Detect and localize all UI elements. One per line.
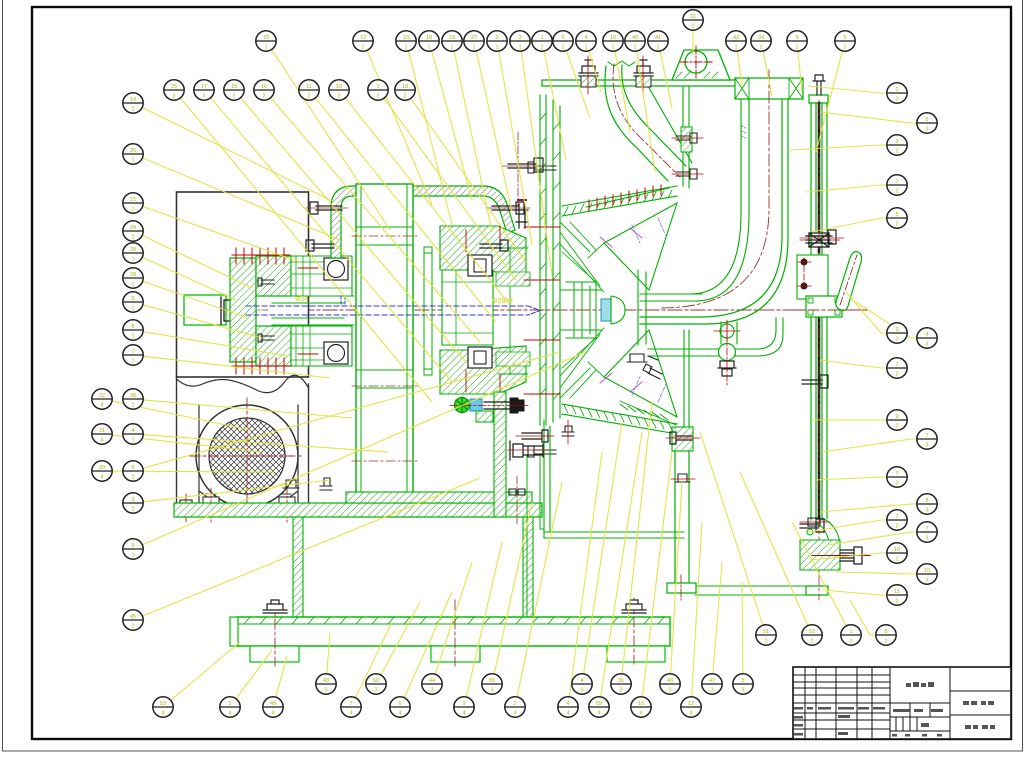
balloon callout 14 xyxy=(123,93,143,113)
svg-text:3: 3 xyxy=(895,139,898,145)
leader line to part 30 xyxy=(144,400,353,418)
svg-text:27: 27 xyxy=(471,35,477,41)
svg-text:55: 55 xyxy=(489,678,495,684)
leader line to part 42 xyxy=(737,51,742,86)
leader line to part 27 xyxy=(476,51,512,212)
svg-text:2: 2 xyxy=(895,188,898,194)
svg-text:3: 3 xyxy=(925,341,928,347)
svg-text:52: 52 xyxy=(809,629,815,635)
svg-text:2: 2 xyxy=(376,93,379,99)
svg-text:2: 2 xyxy=(202,93,205,99)
pump bearing lower xyxy=(468,347,492,368)
casing lower wall xyxy=(544,420,550,532)
leader line to part 2 xyxy=(499,51,532,245)
balloon callout 31 xyxy=(611,674,631,694)
baseplate foot right xyxy=(607,646,665,662)
svg-text:1: 1 xyxy=(131,474,134,480)
leader line to part 49 xyxy=(276,656,287,697)
leader line to part 25 xyxy=(181,98,432,402)
leader line to part 7 xyxy=(822,439,917,452)
balloon callout 7 xyxy=(887,467,907,487)
svg-text:9: 9 xyxy=(131,296,134,302)
bolt cluster A xyxy=(516,430,554,442)
leader line to part 9 xyxy=(143,305,262,338)
balloon callout 23 xyxy=(442,31,462,51)
leader line to part 4 xyxy=(584,422,622,674)
svg-text:53: 53 xyxy=(160,701,166,707)
svg-text:2: 2 xyxy=(895,96,898,102)
leader line to part 7 xyxy=(814,477,887,480)
balloon callout 9 xyxy=(887,410,907,430)
shaft blue cone end xyxy=(528,306,540,315)
svg-text:30: 30 xyxy=(130,393,136,399)
baseplate xyxy=(237,617,670,646)
balloon callout 4 xyxy=(576,31,596,51)
svg-text:5: 5 xyxy=(228,701,231,707)
blue slant marks xyxy=(632,218,666,402)
pump support foot xyxy=(667,583,696,593)
leader line to part 4 xyxy=(856,302,917,338)
baseplate foot left xyxy=(250,646,299,662)
svg-text:2: 2 xyxy=(895,221,898,227)
leader line to part 15 xyxy=(272,50,390,230)
bearing bracket arch xyxy=(331,186,515,258)
wall bolt lower xyxy=(672,169,703,179)
svg-text:49: 49 xyxy=(270,701,276,707)
svg-text:7: 7 xyxy=(349,701,352,707)
svg-text:1: 1 xyxy=(404,44,407,50)
left grid columns xyxy=(805,667,872,739)
balloon callout 44 xyxy=(422,674,442,694)
title text right mid smudge xyxy=(963,701,994,705)
svg-text:1: 1 xyxy=(361,44,364,50)
leader line to part 20 xyxy=(143,257,236,300)
svg-text:7: 7 xyxy=(895,179,898,185)
svg-text:1: 1 xyxy=(131,206,134,212)
balloon callout 8 xyxy=(876,625,896,645)
svg-text:1: 1 xyxy=(849,629,852,635)
svg-text:43: 43 xyxy=(323,678,329,684)
svg-text:2: 2 xyxy=(884,638,887,644)
valve bottom elbow xyxy=(816,518,840,542)
svg-text:2: 2 xyxy=(895,148,898,154)
L-bracket inner wall xyxy=(527,455,544,617)
svg-text:2: 2 xyxy=(262,93,265,99)
balloon callout 18 xyxy=(419,31,439,51)
baseplate left cap xyxy=(230,617,238,646)
svg-text:1: 1 xyxy=(450,44,453,50)
pump support pad xyxy=(672,427,693,451)
support leg left xyxy=(293,517,303,617)
bracket pivot bolts xyxy=(801,259,808,266)
balloon callout 30 xyxy=(123,389,143,409)
leader line to part 16 xyxy=(271,98,480,342)
bolt frame top right xyxy=(502,158,548,172)
svg-text:45: 45 xyxy=(130,614,136,620)
svg-text:5: 5 xyxy=(895,212,898,218)
valve guide columns xyxy=(806,95,828,595)
balloon callout 29 xyxy=(92,461,112,481)
bolt mid right xyxy=(480,240,508,251)
motor pedestal xyxy=(186,491,310,508)
svg-text:9: 9 xyxy=(131,543,134,549)
balloon callout 45 xyxy=(123,610,143,630)
leader line to part 24 xyxy=(143,236,253,289)
balloon callout 2 xyxy=(887,83,907,103)
balloon callout 15 xyxy=(224,80,244,100)
leader line to part 10 xyxy=(836,572,917,574)
svg-text:7: 7 xyxy=(895,362,898,368)
balloon callout 53 xyxy=(153,697,173,717)
svg-text:42: 42 xyxy=(733,35,739,41)
leader line to part 3 xyxy=(521,51,552,275)
leader line to part 43 xyxy=(327,632,330,674)
balloon callout 11 xyxy=(887,585,907,605)
main shaft axis centerline xyxy=(185,309,868,311)
discharge elbow outer wall xyxy=(640,99,788,324)
leader line to part 1 xyxy=(792,522,846,626)
balloon callout 24 xyxy=(123,221,143,241)
shroud band upper xyxy=(562,186,677,216)
support base rail xyxy=(695,586,810,595)
balloon callout 3 xyxy=(887,135,907,155)
svg-text:1: 1 xyxy=(584,44,587,50)
coupling clamp bolt xyxy=(221,297,256,324)
balloon callout 15 xyxy=(256,31,276,51)
svg-text:21: 21 xyxy=(130,197,136,203)
svg-text:4: 4 xyxy=(925,332,928,338)
svg-text:1: 1 xyxy=(656,44,659,50)
baseplate bolt left xyxy=(263,600,287,613)
suction chamber right wall xyxy=(683,86,689,188)
bolt arch left xyxy=(306,202,348,214)
svg-text:3: 3 xyxy=(430,687,433,693)
leader line to part 10 xyxy=(810,553,887,560)
svg-text:8: 8 xyxy=(884,629,887,635)
svg-text:1: 1 xyxy=(376,84,379,90)
svg-text:4: 4 xyxy=(131,428,134,434)
svg-text:1: 1 xyxy=(131,234,134,240)
balloon callout 50 xyxy=(366,674,386,694)
svg-text:1: 1 xyxy=(131,506,134,512)
svg-text:1: 1 xyxy=(795,44,798,50)
impeller inlet cone lines xyxy=(560,222,604,398)
svg-text:2: 2 xyxy=(895,423,898,429)
pump support upper pair xyxy=(684,330,689,427)
svg-text:3: 3 xyxy=(518,35,521,41)
leader line to part 53 xyxy=(171,642,240,700)
leader line to part 6 xyxy=(567,51,591,118)
leader line to part 28 xyxy=(143,281,248,318)
pump support pad bolt xyxy=(666,432,700,444)
leader line to part 59 xyxy=(601,432,642,697)
balloon callout 5 xyxy=(733,674,753,694)
svg-text:2: 2 xyxy=(337,93,340,99)
diffuser upper vane xyxy=(604,203,677,290)
leader line to part 14 xyxy=(142,108,330,200)
balloon callout 7 xyxy=(887,358,907,378)
balloon callout 10 xyxy=(603,31,623,51)
title block vertical main dividers xyxy=(890,667,950,739)
motor frame side walls xyxy=(199,405,298,508)
svg-text:11: 11 xyxy=(894,589,900,595)
bolt mid left xyxy=(306,240,334,251)
pump support column xyxy=(675,451,689,583)
title block outline xyxy=(793,667,1011,739)
svg-text:5: 5 xyxy=(131,465,134,471)
balloon callout 4 xyxy=(572,674,592,694)
balloon callout 26 xyxy=(123,144,143,164)
valve body block xyxy=(806,296,842,317)
svg-text:19: 19 xyxy=(336,84,342,90)
svg-text:3: 3 xyxy=(925,126,928,132)
shaft sleeve block xyxy=(442,270,493,345)
motor end bell circle xyxy=(196,405,298,507)
svg-text:26: 26 xyxy=(130,148,136,154)
balloon callout 52 xyxy=(802,625,822,645)
leader line to part 3 xyxy=(846,292,887,333)
impeller nut cyan xyxy=(601,299,611,321)
shaft blue dashed xyxy=(246,306,528,315)
balloon callout 5 xyxy=(835,31,855,51)
balloon callout 1 xyxy=(841,625,861,645)
svg-text:16: 16 xyxy=(261,84,267,90)
leader line to part 6 xyxy=(404,592,452,697)
svg-text:50: 50 xyxy=(373,678,379,684)
baseplate foot mid xyxy=(431,646,480,662)
leader line to part 23 xyxy=(454,51,492,232)
svg-text:4: 4 xyxy=(462,710,465,716)
svg-text:2: 2 xyxy=(849,638,852,644)
balloon callout 5 xyxy=(220,697,240,717)
svg-text:15: 15 xyxy=(263,35,269,41)
svg-text:2: 2 xyxy=(307,93,310,99)
svg-text:8: 8 xyxy=(131,324,134,330)
svg-text:4: 4 xyxy=(639,710,642,716)
balloon callout 20 xyxy=(123,243,143,263)
balloon callout 51 xyxy=(756,625,776,645)
balloon callout 10 xyxy=(917,564,937,584)
svg-text:12: 12 xyxy=(360,35,366,41)
leader line to part 12 xyxy=(692,522,702,697)
svg-text:1: 1 xyxy=(131,402,134,408)
svg-text:3: 3 xyxy=(619,687,622,693)
leader line to part 46 xyxy=(671,482,682,674)
svg-text:59: 59 xyxy=(596,701,602,707)
balloon callout 17 xyxy=(194,80,214,100)
balloon callout 27 xyxy=(464,31,484,51)
balloon callout 4 xyxy=(558,697,578,717)
leader line to part 3 xyxy=(790,145,887,150)
svg-text:3: 3 xyxy=(925,507,928,513)
nut casing lower mid xyxy=(627,354,658,362)
balloon callout 4 xyxy=(917,328,937,348)
svg-text:3: 3 xyxy=(925,577,928,583)
bolt frame low xyxy=(320,478,332,490)
leader line to part 8 xyxy=(143,332,288,356)
svg-text:3: 3 xyxy=(490,687,493,693)
motor shaft stub xyxy=(184,295,226,325)
lifting lug xyxy=(672,50,730,80)
balloon callout 42 xyxy=(726,31,746,51)
impeller hub steps xyxy=(560,282,602,338)
bolt valve 520 xyxy=(800,519,824,532)
balloon callout 12 xyxy=(681,697,701,717)
svg-text:6: 6 xyxy=(398,701,401,707)
svg-text:2: 2 xyxy=(403,93,406,99)
impeller screws row xyxy=(586,188,669,207)
leader line to part 5 xyxy=(236,650,272,699)
leader line to part 4 xyxy=(569,452,602,697)
drain nuts xyxy=(718,361,736,376)
rear cover hatched band xyxy=(540,95,560,425)
balloon callout 43 xyxy=(316,674,336,694)
svg-text:4: 4 xyxy=(228,710,231,716)
svg-text:4: 4 xyxy=(584,35,587,41)
leader line to part 9 xyxy=(466,542,502,697)
flange bolt right xyxy=(634,56,653,94)
leader line to part 1 xyxy=(384,99,516,281)
svg-text:2: 2 xyxy=(513,701,516,707)
shaft nose cone xyxy=(611,296,625,324)
bearing housing lower xyxy=(291,326,352,366)
svg-text:44: 44 xyxy=(429,678,435,684)
svg-text:7: 7 xyxy=(925,433,928,439)
elbow centerline xyxy=(660,70,769,308)
plate left bolt xyxy=(178,494,194,522)
leader line to part 18 xyxy=(432,51,472,200)
svg-text:Φ24: Φ24 xyxy=(295,296,308,303)
bolt cluster B xyxy=(508,441,549,460)
balloon callout 7 xyxy=(887,510,907,530)
svg-text:1: 1 xyxy=(540,44,543,50)
leader line to part 29 xyxy=(113,470,275,473)
leader line to part 31 xyxy=(692,31,694,56)
svg-text:14: 14 xyxy=(130,97,136,103)
diffuser lower vane xyxy=(604,330,677,417)
svg-text:1: 1 xyxy=(131,106,134,112)
drain pipe xyxy=(648,318,783,356)
balloon callout 7 xyxy=(123,345,143,365)
svg-text:47: 47 xyxy=(709,678,715,684)
leader line to part 5 xyxy=(812,218,887,232)
leader line to part 7 xyxy=(806,185,887,192)
leader line to part 3 xyxy=(143,480,330,502)
bearing housing upper xyxy=(291,256,352,296)
svg-text:40: 40 xyxy=(632,35,638,41)
bolt leg left xyxy=(283,480,299,488)
svg-text:1: 1 xyxy=(131,281,134,287)
title text drawing name smudge xyxy=(906,682,934,687)
balloon callout 13 xyxy=(396,31,416,51)
row label smudges xyxy=(794,707,885,710)
leader line to part 12 xyxy=(367,51,432,205)
svg-text:5: 5 xyxy=(843,35,846,41)
wall bolt upper xyxy=(672,133,703,143)
svg-text:9: 9 xyxy=(895,414,898,420)
cover bolts xyxy=(528,162,556,457)
leader line to part 44 xyxy=(435,562,472,674)
svg-text:4: 4 xyxy=(513,710,516,716)
cone hatch band lower left xyxy=(620,401,676,425)
magenta vane marks xyxy=(600,228,642,392)
red vertical pedestal centerline xyxy=(516,476,518,524)
svg-text:4: 4 xyxy=(566,710,569,716)
leader line to part 11 xyxy=(316,98,496,322)
leader line to part 21 xyxy=(143,207,300,263)
svg-text:2: 2 xyxy=(895,523,898,529)
leader line to part 9 xyxy=(143,352,585,545)
leader line to part 6 xyxy=(798,51,802,92)
balloon callout 10 xyxy=(887,543,907,563)
cone bolt xyxy=(562,420,574,444)
leader line to part 7 xyxy=(828,532,917,545)
leader line to part 15 xyxy=(241,98,466,362)
guard red centerlines xyxy=(352,236,417,461)
motor body break line xyxy=(177,375,309,392)
leader line to part 31 xyxy=(622,402,652,674)
leader line to part 6 xyxy=(820,112,917,123)
balloon callout 6 xyxy=(390,697,410,717)
balloon callout 6 xyxy=(787,31,807,51)
svg-text:3: 3 xyxy=(741,687,744,693)
svg-text:1: 1 xyxy=(759,44,762,50)
leader line to part 7 xyxy=(356,622,392,698)
balloon callout 7 xyxy=(887,175,907,195)
svg-text:3: 3 xyxy=(580,687,583,693)
svg-text:1: 1 xyxy=(131,623,134,629)
balloon callout 9 xyxy=(123,292,143,312)
svg-text:1: 1 xyxy=(540,35,543,41)
svg-text:4: 4 xyxy=(580,678,583,684)
svg-text:7: 7 xyxy=(895,514,898,520)
balloon callout 40 xyxy=(625,31,645,51)
valve bottom bolt xyxy=(812,547,870,564)
svg-text:23: 23 xyxy=(449,35,455,41)
coupling hub upper block xyxy=(256,256,291,296)
leader line to part 16 xyxy=(642,452,672,697)
svg-text:1: 1 xyxy=(611,44,614,50)
balloon callout 3 xyxy=(123,493,143,513)
motor core hatched circle xyxy=(209,418,285,494)
svg-text:1: 1 xyxy=(518,44,521,50)
svg-text:2: 2 xyxy=(895,598,898,604)
balloon callout 1 xyxy=(532,31,552,51)
baseplate bolt right xyxy=(622,600,646,613)
middle cells xyxy=(890,703,950,731)
balloon callout 41 xyxy=(648,31,668,51)
leader line to part 52 xyxy=(740,472,808,625)
svg-text:4: 4 xyxy=(161,710,164,716)
leader line to part 22 xyxy=(112,401,250,430)
svg-text:17: 17 xyxy=(201,84,207,90)
svg-text:3: 3 xyxy=(374,687,377,693)
svg-text:8: 8 xyxy=(925,498,928,504)
exit flange xyxy=(638,270,646,345)
svg-text:10: 10 xyxy=(924,568,930,574)
balloon callout 25 xyxy=(164,80,184,100)
leader line to part 5 xyxy=(741,582,744,674)
svg-text:51: 51 xyxy=(763,629,769,635)
svg-text:13: 13 xyxy=(403,35,409,41)
svg-text:2: 2 xyxy=(764,638,767,644)
balloon callout 12 xyxy=(353,31,373,51)
svg-text:3: 3 xyxy=(668,687,671,693)
leader line to part 13 xyxy=(409,51,453,225)
svg-text:18: 18 xyxy=(426,35,432,41)
balloon callout 2 xyxy=(487,31,507,51)
packing gland xyxy=(806,233,832,247)
